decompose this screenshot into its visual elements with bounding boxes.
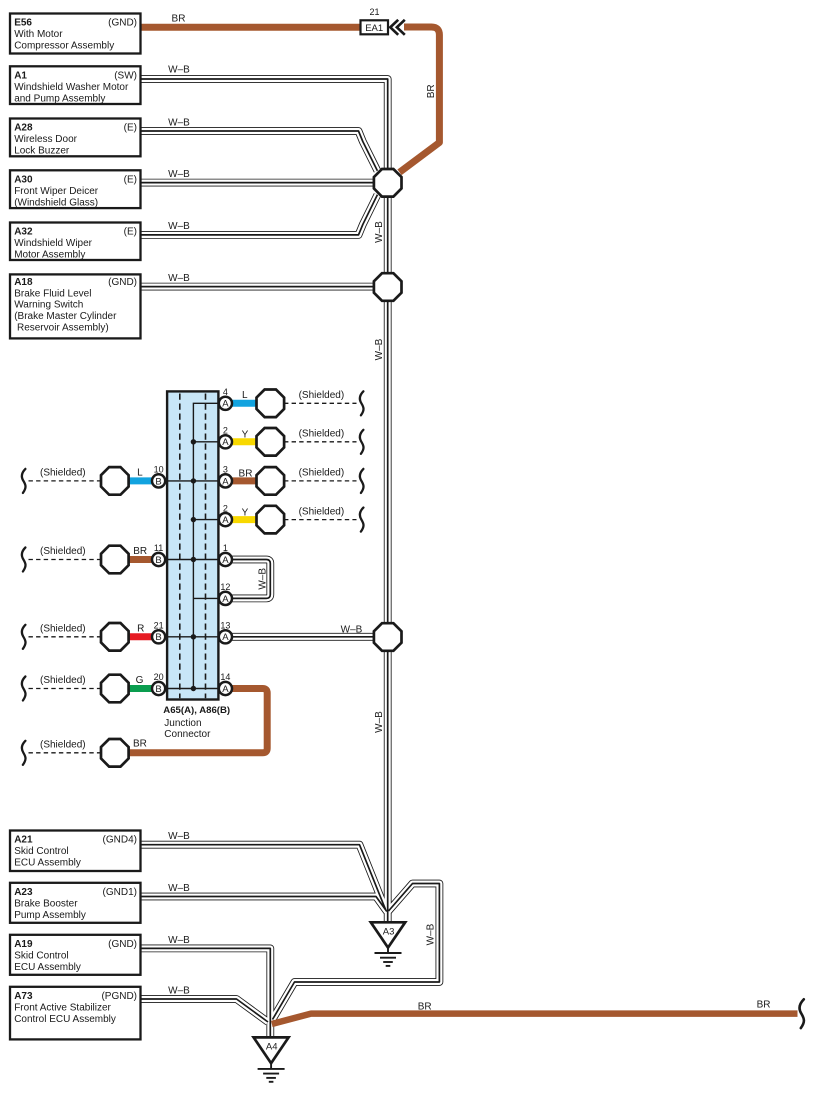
component box A73 <box>10 987 141 1040</box>
junction pin 11 (B side) <box>152 543 165 566</box>
svg-text:W–B: W–B <box>258 568 269 590</box>
shield symbol right row2 <box>257 428 285 456</box>
svg-text:Control ECU Assembly: Control ECU Assembly <box>14 1014 116 1025</box>
svg-text:W–B: W–B <box>374 221 385 243</box>
squiggle left row y=688.5 <box>22 677 26 701</box>
dashed shield line right row y=441.8 <box>284 441 357 443</box>
svg-text:A19: A19 <box>14 939 33 950</box>
svg-text:BR: BR <box>133 546 147 557</box>
svg-text:(Shielded): (Shielded) <box>40 675 86 686</box>
shield symbol left row4 <box>101 675 129 703</box>
junction connector A65(A)/A86(B) body <box>167 391 218 699</box>
svg-text:(E): (E) <box>124 175 137 186</box>
svg-text:W–B: W–B <box>168 935 190 946</box>
stub BR pin 11 <box>129 556 154 563</box>
svg-text:EA1: EA1 <box>365 23 383 34</box>
ground A4 <box>254 1037 289 1081</box>
shield symbol left row3 <box>101 623 129 651</box>
stub Y pin 2 <box>231 438 258 445</box>
stub L pin 10 <box>129 477 154 484</box>
svg-text:2: 2 <box>223 426 228 436</box>
svg-text:Front Wiper Deicer: Front Wiper Deicer <box>14 186 99 197</box>
junction pin 2 (A side) <box>219 503 232 526</box>
component box A18 <box>10 274 141 338</box>
svg-text:21: 21 <box>154 621 164 631</box>
svg-text:W–B: W–B <box>341 625 363 636</box>
shield symbol left row2 <box>101 546 129 574</box>
svg-text:Y: Y <box>242 507 249 518</box>
svg-text:and Pump Assembly: and Pump Assembly <box>14 93 105 104</box>
svg-text:20: 20 <box>154 672 164 682</box>
svg-text:B: B <box>155 476 161 487</box>
svg-text:A73: A73 <box>14 991 33 1002</box>
connector EA1 pin 21 <box>361 7 405 35</box>
bus junction dot y=688.5 <box>191 686 196 691</box>
svg-text:(GND): (GND) <box>108 939 137 950</box>
wire BR from junction pin 14 to shield row 5 <box>129 689 267 753</box>
ground node J3 <box>374 623 402 651</box>
W-B wires: black centre stripe layer <box>141 79 439 1037</box>
stub BR pin 3 <box>231 477 258 484</box>
svg-text:(Shielded): (Shielded) <box>299 390 345 401</box>
dashed shield line right row y=403.3 <box>284 402 357 404</box>
stub Y pin 2b <box>231 516 258 523</box>
svg-text:4: 4 <box>223 387 228 397</box>
svg-text:(SW): (SW) <box>114 71 137 82</box>
svg-text:B: B <box>155 684 161 695</box>
ground node J1 <box>374 169 402 197</box>
wire BR from ground A4 to right edge <box>272 1014 798 1024</box>
svg-text:A4: A4 <box>266 1041 278 1052</box>
svg-text:BR: BR <box>239 469 253 480</box>
shield symbol right row1 <box>257 390 285 418</box>
stub G pin 20 <box>129 685 154 692</box>
svg-text:(PGND): (PGND) <box>101 991 137 1002</box>
svg-text:Skid Control: Skid Control <box>14 950 68 961</box>
bus junction dot y=636.8 <box>191 634 196 639</box>
svg-text:A: A <box>222 515 229 526</box>
svg-text:(GND): (GND) <box>108 277 137 288</box>
shield symbol right row3 <box>257 467 285 495</box>
svg-text:W–B: W–B <box>374 711 385 733</box>
svg-text:B: B <box>155 555 161 566</box>
svg-text:W–B: W–B <box>168 65 190 76</box>
svg-text:G: G <box>136 675 144 686</box>
svg-text:BR: BR <box>172 14 186 25</box>
svg-text:(Shielded): (Shielded) <box>40 468 86 479</box>
svg-text:ECU Assembly: ECU Assembly <box>14 962 81 973</box>
svg-text:(Shielded): (Shielded) <box>40 546 86 557</box>
component box A1 <box>10 66 141 104</box>
component box A19 <box>10 935 141 975</box>
svg-text:Compressor Assembly: Compressor Assembly <box>14 41 114 52</box>
svg-text:W–B: W–B <box>168 273 190 284</box>
svg-text:(E): (E) <box>124 123 137 134</box>
svg-text:Brake Booster: Brake Booster <box>14 898 78 909</box>
svg-text:13: 13 <box>220 621 230 631</box>
component box A32 <box>10 223 141 261</box>
svg-text:A: A <box>222 437 229 448</box>
component box A30 <box>10 170 141 208</box>
squiggle right row y=480.9 <box>360 469 364 493</box>
bus junction dot y=441.8 <box>191 439 196 444</box>
component box A28 <box>10 119 141 157</box>
svg-text:Y: Y <box>242 430 249 441</box>
svg-text:W–B: W–B <box>168 831 190 842</box>
svg-text:A1: A1 <box>14 71 27 82</box>
svg-text:10: 10 <box>154 465 164 475</box>
svg-text:A30: A30 <box>14 175 33 186</box>
svg-text:A: A <box>222 555 229 566</box>
wire BR from E56 to connector EA1 <box>141 24 361 31</box>
component box A23 <box>10 883 141 923</box>
svg-text:W–B: W–B <box>168 221 190 232</box>
dashed shield line left row y=480.9 <box>29 480 102 482</box>
svg-text:A23: A23 <box>14 887 33 898</box>
component box E56 <box>10 14 141 54</box>
bus junction dot y=480.9 <box>191 478 196 483</box>
svg-text:Wireless Door: Wireless Door <box>14 134 77 145</box>
svg-text:Junction: Junction <box>164 718 201 729</box>
svg-text:(Brake Master Cylinder: (Brake Master Cylinder <box>14 311 117 322</box>
svg-text:21: 21 <box>369 7 379 17</box>
junction pin 14 (A side) <box>219 672 232 695</box>
svg-text:B: B <box>155 632 161 643</box>
dashed shield line right row y=480.9 <box>284 480 357 482</box>
svg-text:14: 14 <box>220 672 230 682</box>
junction pin 10 (B side) <box>152 465 165 488</box>
svg-text:E56: E56 <box>14 18 32 29</box>
squiggle left row y=559.5 <box>22 548 26 572</box>
squiggle left row y=636.8 <box>22 625 26 649</box>
svg-text:(GND4): (GND4) <box>103 835 137 846</box>
dashed shield line left row y=636.8 <box>29 636 102 638</box>
squiggle right row y=519.6 <box>360 508 364 532</box>
junction connector internal bus <box>165 403 220 688</box>
svg-text:A28: A28 <box>14 123 33 134</box>
svg-text:W–B: W–B <box>374 338 385 360</box>
svg-text:W–B: W–B <box>168 883 190 894</box>
svg-text:BR: BR <box>133 738 147 749</box>
svg-text:W–B: W–B <box>168 118 190 129</box>
svg-text:R: R <box>137 623 144 634</box>
svg-text:Lock Buzzer: Lock Buzzer <box>14 146 70 157</box>
junction pin 13 (A side) <box>219 621 232 644</box>
svg-text:L: L <box>137 468 143 479</box>
svg-text:A21: A21 <box>14 835 33 846</box>
svg-text:3: 3 <box>223 465 228 475</box>
svg-text:(Shielded): (Shielded) <box>299 506 345 517</box>
svg-text:(E): (E) <box>124 227 137 238</box>
svg-text:A: A <box>222 476 229 487</box>
junction pin 4 (A side) <box>219 387 232 410</box>
svg-text:11: 11 <box>154 543 163 553</box>
junction pin 1 (A side) <box>219 543 232 566</box>
svg-text:A: A <box>222 399 229 410</box>
junction pin 2 (A side) <box>219 426 232 449</box>
squiggle right row y=403.3 <box>360 391 364 415</box>
svg-text:A: A <box>222 684 229 695</box>
svg-text:(Shielded): (Shielded) <box>40 740 86 751</box>
svg-text:ECU Assembly: ECU Assembly <box>14 858 81 869</box>
bus junction dot y=519.6 <box>191 517 196 522</box>
svg-text:Windshield Wiper: Windshield Wiper <box>14 238 92 249</box>
squiggle right row y=441.8 <box>360 430 364 454</box>
svg-text:A3: A3 <box>383 926 395 937</box>
shield symbol left row1 <box>101 467 129 495</box>
svg-text:Reservoir Assembly): Reservoir Assembly) <box>14 322 108 333</box>
svg-text:(Windshield Glass): (Windshield Glass) <box>14 197 98 208</box>
junction pin 12 (A side) <box>219 582 232 605</box>
svg-text:1: 1 <box>223 543 228 553</box>
svg-text:Warning Switch: Warning Switch <box>14 300 83 311</box>
stub R pin 21 <box>129 633 154 640</box>
dashed shield line right row y=519.6 <box>284 519 357 521</box>
svg-text:Pump Assembly: Pump Assembly <box>14 910 86 921</box>
svg-text:Connector: Connector <box>164 729 211 740</box>
junction pin 3 (A side) <box>219 465 232 488</box>
svg-text:BR: BR <box>418 1001 432 1012</box>
svg-text:(Shielded): (Shielded) <box>40 624 86 635</box>
svg-text:12: 12 <box>220 582 230 592</box>
W-B wires: white core layer <box>141 79 439 1037</box>
shield symbol left row5 <box>101 739 129 767</box>
dashed shield line left row y=559.5 <box>29 559 102 561</box>
component box A21 <box>10 831 141 872</box>
stub L pin 4 <box>231 400 258 407</box>
svg-text:W–B: W–B <box>168 169 190 180</box>
svg-text:Windshield Washer Motor: Windshield Washer Motor <box>14 82 129 93</box>
dashed shield line left row y=752.8 <box>29 752 102 754</box>
squiggle left row y=480.9 <box>22 469 26 493</box>
svg-text:A32: A32 <box>14 227 33 238</box>
svg-text:Front Active Stabilizer: Front Active Stabilizer <box>14 1002 111 1013</box>
svg-text:BR: BR <box>757 999 771 1010</box>
svg-text:A: A <box>222 594 229 605</box>
svg-text:W–B: W–B <box>168 986 190 997</box>
svg-text:Skid Control: Skid Control <box>14 846 68 857</box>
dashed shield line left row y=688.5 <box>29 688 102 690</box>
svg-text:With Motor: With Motor <box>14 29 63 40</box>
svg-text:(Shielded): (Shielded) <box>299 429 345 440</box>
junction pin 21 (B side) <box>152 621 165 644</box>
svg-text:L: L <box>242 390 248 401</box>
svg-text:(GND1): (GND1) <box>103 887 137 898</box>
svg-text:A65(A), A86(B): A65(A), A86(B) <box>163 705 230 716</box>
svg-text:2: 2 <box>223 503 228 513</box>
ground node J2 <box>374 273 402 301</box>
junction pin 20 (B side) <box>152 672 165 695</box>
svg-text:BR: BR <box>426 84 437 98</box>
squiggle BR right edge <box>800 999 804 1028</box>
svg-text:(Shielded): (Shielded) <box>299 468 345 479</box>
svg-text:A: A <box>222 632 229 643</box>
squiggle left row y=752.8 <box>22 741 26 765</box>
shield symbol right row4 <box>257 506 285 534</box>
svg-text:(GND): (GND) <box>108 18 137 29</box>
svg-text:A18: A18 <box>14 277 33 288</box>
svg-text:Motor Assembly: Motor Assembly <box>14 250 85 261</box>
bus junction dot y=559.5 <box>191 557 196 562</box>
wire BR from EA1 to node J1 <box>400 27 440 172</box>
junction connector caption <box>163 705 230 740</box>
W-B wires: outline layer <box>141 79 439 1037</box>
ground A3 <box>371 922 405 966</box>
svg-text:W–B: W–B <box>426 923 437 945</box>
svg-text:Brake Fluid Level: Brake Fluid Level <box>14 288 91 299</box>
